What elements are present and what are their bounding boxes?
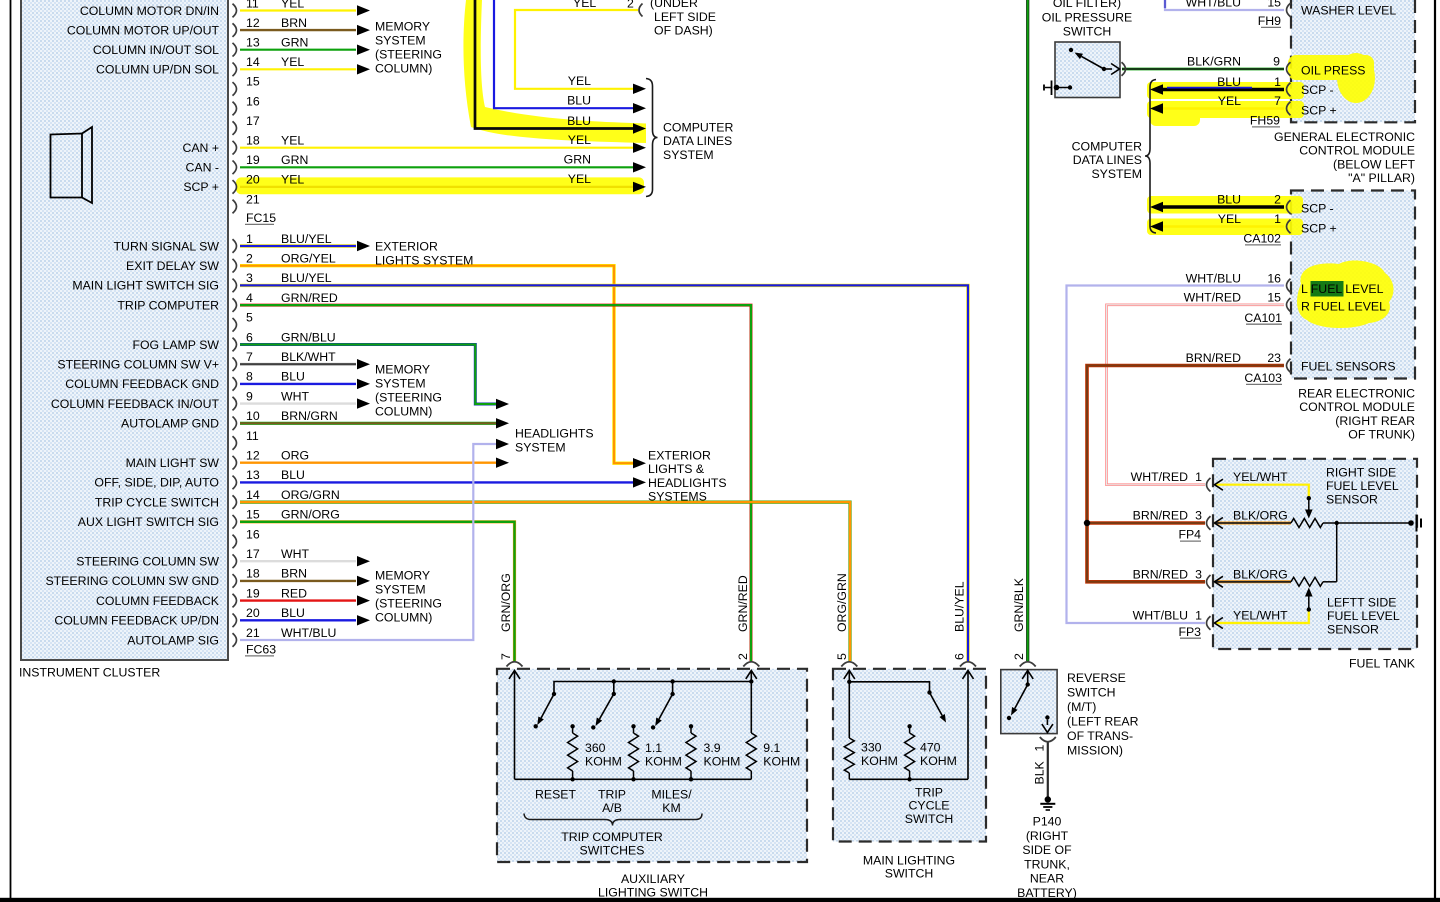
svg-text:1: 1 [1274,75,1281,89]
svg-text:SYSTEMS: SYSTEMS [648,490,707,504]
svg-text:COLUMN): COLUMN) [375,62,432,76]
svg-text:EXTERIOR: EXTERIOR [648,449,711,463]
auxiliary lighting switch box [497,669,807,862]
svg-text:3: 3 [1195,567,1202,581]
svg-text:ORG: ORG [281,449,309,463]
svg-text:COLUMN FEEDBACK GND: COLUMN FEEDBACK GND [65,377,219,391]
instrument cluster box [21,0,228,660]
svg-text:10: 10 [246,409,260,423]
right sensor wiper arrow [1308,500,1310,511]
brace computer data lines system (left) [646,79,658,197]
svg-text:17: 17 [246,114,260,128]
wire YEL pin 18 CAN+ [240,147,633,149]
svg-text:SENSOR: SENSOR [1327,623,1379,637]
svg-text:WHT: WHT [281,547,309,561]
svg-text:COMPUTER: COMPUTER [1072,140,1142,154]
svg-text:ORG/YEL: ORG/YEL [281,252,336,266]
svg-text:COLUMN): COLUMN) [375,611,432,625]
svg-text:13: 13 [246,36,260,50]
svg-text:YEL/WHT: YEL/WHT [1233,470,1288,484]
svg-text:3: 3 [1195,509,1202,523]
svg-text:FOG LAMP SW: FOG LAMP SW [132,338,219,352]
highlighter blob over L/R FUEL LEVEL [1297,261,1393,328]
wire WHT pin 9 [240,402,356,404]
svg-text:FH59: FH59 [1250,114,1280,128]
svg-text:HEADLIGHTS: HEADLIGHTS [648,476,727,490]
svg-text:COLUMN FEEDBACK UP/DN: COLUMN FEEDBACK UP/DN [54,614,219,628]
svg-text:FUEL TANK: FUEL TANK [1349,656,1416,670]
svg-text:SWITCH: SWITCH [1067,686,1116,700]
dark green highlight behind FUEL [1311,281,1344,297]
wire YEL pin 20 SCP+ [240,186,633,188]
svg-text:YEL: YEL [281,0,304,10]
svg-text:7: 7 [1274,94,1281,108]
GECM pin arcs [1287,3,1291,17]
arrows to memory system block 2 [357,359,370,369]
svg-text:FC15: FC15 [246,211,276,225]
svg-text:SYSTEM: SYSTEM [375,34,426,48]
svg-text:(BELOW LEFT: (BELOW LEFT [1333,157,1415,171]
junction dot BRN/RED branch [1084,520,1090,526]
reverse switch top connector arc pin 2 [1020,662,1036,667]
svg-text:15: 15 [246,508,260,522]
fuel tank box [1213,459,1417,649]
svg-text:11: 11 [246,429,259,443]
right sensor wiper dot [1307,496,1311,500]
wire BRN/RED pin 23 fuel sensors [1087,366,1284,582]
svg-text:(STEERING: (STEERING [375,391,442,405]
svg-text:ORG/GRN: ORG/GRN [281,488,340,502]
svg-text:GRN/BLU: GRN/BLU [281,330,336,344]
main switch top bus [847,680,851,684]
svg-text:BLK/ORG: BLK/ORG [1233,509,1288,523]
oil pressure switch diaphragm symbol [1043,85,1045,91]
instrument cluster FC63 pin arcs 1-21 [233,239,237,253]
svg-text:15: 15 [1267,291,1281,305]
svg-text:AUTOLAMP SIG: AUTOLAMP SIG [127,633,219,647]
brace computer data lines system (right) [1145,80,1156,234]
svg-text:470: 470 [920,740,941,754]
svg-text:1: 1 [1195,470,1202,484]
junction dot right sensor [1335,521,1339,525]
reverse switch box [1001,670,1057,734]
svg-text:SCP +: SCP + [1301,103,1337,117]
svg-text:6: 6 [246,330,253,344]
svg-text:(RIGHT: (RIGHT [1026,829,1069,843]
left sensor wiper dot [1307,607,1311,611]
wire YEL pin 11 [240,9,356,11]
main lighting switch box [833,669,986,842]
svg-text:2: 2 [627,0,634,11]
svg-text:A/B: A/B [602,801,622,815]
svg-text:BATTERY): BATTERY) [1017,886,1077,900]
wire WHT/RED pin 15 R fuel level [1107,305,1285,485]
wire WHT/BLU pin 15 washer level [1165,0,1284,10]
page bottom bar [0,898,1440,902]
svg-text:FUEL SENSORS: FUEL SENSORS [1301,359,1396,373]
svg-text:BLU: BLU [1217,193,1241,207]
svg-text:SWITCH: SWITCH [905,812,954,826]
svg-text:TRIP: TRIP [915,785,943,799]
resistor 360 KOHM [570,724,574,728]
svg-text:GRN/BLK: GRN/BLK [1012,577,1026,632]
svg-text:TRUNK,: TRUNK, [1024,857,1070,871]
wire BLU/YEL pin 3 main light switch sig [240,285,968,661]
svg-text:RED: RED [281,586,307,600]
svg-text:13: 13 [246,468,260,482]
svg-text:BLU/YEL: BLU/YEL [953,581,967,632]
svg-text:360: 360 [585,741,606,755]
svg-text:MEMORY: MEMORY [375,569,430,583]
svg-text:AUX LIGHT SWITCH SIG: AUX LIGHT SWITCH SIG [78,515,219,529]
wire BLU vertical to computer data lines [494,0,633,108]
wire BLU pin 13 off side dip auto [240,481,633,483]
svg-text:CONTROL MODULE: CONTROL MODULE [1299,400,1415,414]
left sensor wiper arrow [1308,596,1310,608]
arrows to memory system block 1 [357,5,370,15]
svg-text:COLUMN MOTOR UP/OUT: COLUMN MOTOR UP/OUT [67,23,220,37]
wire ORG/YEL pin 2 exit delay [240,266,633,464]
oil pressure switch box [1055,42,1120,98]
svg-text:FC63: FC63 [246,643,276,657]
general electronic control module connector FH9/FH59 box [1291,0,1415,122]
svg-text:19: 19 [246,586,260,600]
svg-text:L FUEL LEVEL: L FUEL LEVEL [1301,282,1384,296]
svg-text:8: 8 [246,370,253,384]
svg-text:SCP -: SCP - [1301,83,1334,97]
svg-text:OIL PRESS: OIL PRESS [1301,64,1365,78]
wire BRN pin 18 [240,580,356,582]
wire junction to fuel tank ground [1337,522,1409,524]
svg-text:YEL: YEL [568,133,591,147]
svg-text:WHT/BLU: WHT/BLU [281,626,336,640]
wire BRN/GRN pin 10 autolamp gnd [240,422,496,425]
svg-text:LEFT SIDE: LEFT SIDE [654,10,716,24]
oil pressure switch male pin arrow [1104,68,1112,70]
svg-text:16: 16 [246,527,260,541]
svg-text:1.1: 1.1 [645,741,662,755]
svg-text:WHT/BLU: WHT/BLU [1186,271,1241,285]
male pin arrows inside fuel tank [1215,479,1223,490]
svg-text:21: 21 [246,626,260,640]
page border left [10,0,12,902]
svg-text:YEL/WHT: YEL/WHT [1233,609,1288,623]
resistor right side fuel level sensor [1291,519,1323,528]
svg-text:6: 6 [953,653,967,660]
svg-text:LIGHTING SWITCH: LIGHTING SWITCH [598,885,708,899]
svg-text:3: 3 [246,271,253,285]
svg-text:SYSTEM: SYSTEM [1091,167,1142,181]
svg-text:BLU: BLU [281,606,305,620]
highlighter mark over computer data line wire (top center) [463,0,646,143]
svg-text:YEL: YEL [568,172,591,186]
svg-text:STEERING COLUMN SW: STEERING COLUMN SW [76,555,219,569]
svg-text:19: 19 [246,153,260,167]
svg-text:KOHM: KOHM [704,754,741,768]
svg-text:LIGHTS &: LIGHTS & [648,462,705,476]
trip cycle switch arm [930,693,943,716]
svg-text:YEL: YEL [573,0,596,10]
wire WHT/BLU pin 16 L fuel level [1067,286,1285,624]
svg-text:OF DASH): OF DASH) [654,24,713,38]
resistor 330 KOHM [848,682,850,738]
wire BLK/ORG left sensor [1215,580,1292,583]
svg-text:15: 15 [246,75,260,89]
resistor 1.1 KOHM [631,724,635,728]
svg-text:MILES/: MILES/ [651,787,692,801]
trip a/b switch [612,692,616,696]
svg-text:BLU: BLU [281,468,305,482]
svg-text:FP4: FP4 [1178,528,1201,542]
svg-text:MAIN LIGHT SW: MAIN LIGHT SW [126,456,220,470]
svg-text:5: 5 [835,653,849,660]
wire GRN/ORG pin 15 aux light switch sig [240,522,515,661]
svg-text:OF TRANS-: OF TRANS- [1067,729,1133,743]
oil pressure switch output arc [1122,62,1126,76]
svg-text:4: 4 [246,291,253,305]
svg-text:YEL: YEL [281,173,304,187]
wire BRN/RED branch to FP4 [1087,521,1205,525]
svg-text:BRN/GRN: BRN/GRN [281,409,338,423]
svg-text:MAIN LIGHT SWITCH SIG: MAIN LIGHT SWITCH SIG [72,279,219,293]
svg-text:DATA LINES: DATA LINES [663,134,732,148]
svg-text:7: 7 [246,350,253,364]
svg-text:INSTRUMENT CLUSTER: INSTRUMENT CLUSTER [19,666,160,680]
aux bus junction dots [612,679,616,683]
svg-text:STEERING COLUMN SW GND: STEERING COLUMN SW GND [45,574,219,588]
svg-text:SCP -: SCP - [1301,201,1334,215]
svg-text:CAN -: CAN - [186,161,219,175]
wire BLU (drawn black, highlighted) to computer data lines [475,0,633,129]
wire GRN/BLK to reverse switch [1026,0,1029,661]
svg-text:GRN/ORG: GRN/ORG [281,508,340,522]
oil pressure switch contacts [1069,48,1073,52]
svg-text:TURN SIGNAL SW: TURN SIGNAL SW [114,239,220,253]
svg-text:"A" PILLAR): "A" PILLAR) [1348,171,1415,185]
svg-text:(UNDER: (UNDER [650,0,698,10]
svg-text:SWITCHES: SWITCHES [580,844,645,858]
svg-text:18: 18 [246,134,260,148]
svg-text:2: 2 [736,653,750,660]
svg-text:COLUMN MOTOR DN/IN: COLUMN MOTOR DN/IN [80,4,219,18]
svg-text:16: 16 [246,94,260,108]
wire BLU/YEL pin 1 turn signal [240,244,356,247]
male pin arrows into main switch [848,671,850,683]
wire RED pin 19 [240,599,356,601]
svg-text:14: 14 [246,55,260,69]
svg-text:ORG/GRN: ORG/GRN [835,573,849,632]
svg-text:SWITCH: SWITCH [885,866,934,880]
svg-text:BLU/YEL: BLU/YEL [281,232,332,246]
svg-text:YEL: YEL [281,134,304,148]
arrows to computer data lines system [633,84,646,94]
resistor 3.9 KOHM [689,724,693,728]
svg-text:BLU: BLU [567,114,591,128]
svg-text:FH9: FH9 [1258,14,1281,28]
svg-text:KOHM: KOHM [763,754,800,768]
svg-text:FUEL LEVEL: FUEL LEVEL [1327,609,1400,623]
svg-text:9: 9 [246,389,253,403]
svg-text:LEFTT SIDE: LEFTT SIDE [1327,595,1396,609]
svg-text:HEADLIGHTS: HEADLIGHTS [515,427,594,441]
svg-text:23: 23 [1267,351,1281,365]
aux switch top connector arcs pins 7,2 [507,662,523,667]
svg-text:2: 2 [1274,193,1281,207]
svg-text:2: 2 [246,252,253,266]
svg-text:AUXILIARY: AUXILIARY [621,872,685,886]
svg-text:9: 9 [1273,55,1280,69]
wire YEL/WHT right sensor [1215,485,1309,496]
svg-text:GRN: GRN [281,153,308,167]
oil pressure switch arm [1081,56,1104,69]
svg-text:YEL: YEL [568,74,591,88]
svg-text:OIL FILTER): OIL FILTER) [1053,0,1121,10]
svg-text:1: 1 [246,232,253,246]
svg-text:BRN/RED: BRN/RED [1186,351,1241,365]
highlighter mark over SCP+ wire pin 20 [236,177,644,194]
svg-text:COLUMN FEEDBACK: COLUMN FEEDBACK [96,594,220,608]
wire BLU pin 2 SCP- CA102 (marked black) [1163,205,1284,209]
svg-text:KM: KM [662,801,680,815]
svg-text:2: 2 [1012,653,1026,660]
svg-text:SIDE OF: SIDE OF [1022,843,1072,857]
svg-text:WASHER LEVEL: WASHER LEVEL [1301,4,1396,18]
wire BLK/GRN pin 9 oil press [1122,68,1284,71]
svg-text:BLK/ORG: BLK/ORG [1233,567,1288,581]
svg-text:9.1: 9.1 [763,741,780,755]
instrument cluster FC15 pin arcs 11-21 [233,4,237,18]
brace trip computer switches [524,814,702,826]
svg-text:BLU: BLU [567,94,591,108]
svg-text:SENSOR: SENSOR [1326,493,1378,507]
aux switch top bus [554,682,751,695]
svg-text:SYSTEM: SYSTEM [375,377,426,391]
svg-text:TRIP COMPUTER: TRIP COMPUTER [117,298,219,312]
svg-text:SYSTEM: SYSTEM [515,441,566,455]
wire GRN/RED pin 4 trip computer [240,305,751,661]
svg-text:CA101: CA101 [1244,311,1282,325]
svg-text:16: 16 [1267,271,1281,285]
wire resistor to junction [1323,522,1337,524]
svg-text:REVERSE: REVERSE [1067,671,1126,685]
svg-text:COLUMN): COLUMN) [375,405,432,419]
svg-text:(LEFT REAR: (LEFT REAR [1067,715,1139,729]
male pin arrows into aux switch [514,671,516,780]
svg-text:SCP +: SCP + [1301,222,1337,236]
highlighter mark over FH59 BLU/YEL wires and OIL PRESS [1147,53,1375,126]
svg-text:17: 17 [246,547,260,561]
svg-text:CYCLE: CYCLE [908,798,949,812]
wire WHT pin 17 [240,560,356,562]
highlighter mark over CA102 BLU/YEL wires [1147,196,1303,235]
dash connector arc (UNDER LEFT SIDE OF DASH) [639,4,643,17]
mirror symbol inside instrument cluster [51,134,83,198]
svg-text:WHT/RED: WHT/RED [1131,470,1188,484]
svg-text:TRIP COMPUTER: TRIP COMPUTER [561,830,663,844]
wire YEL/WHT left sensor [1215,611,1309,623]
svg-text:CAN +: CAN + [182,141,219,155]
wire GRN pin 19 CAN- [240,166,633,168]
svg-text:15: 15 [1267,0,1281,10]
wire YEL pin 14 [240,68,356,70]
wire YEL pin 7 SCP+ FH59 [1163,107,1284,109]
svg-text:CA102: CA102 [1243,232,1281,246]
svg-text:BRN/RED: BRN/RED [1133,509,1188,523]
svg-text:LIGHTS SYSTEM: LIGHTS SYSTEM [375,254,473,268]
svg-text:FUEL LEVEL: FUEL LEVEL [1326,479,1399,493]
svg-text:WHT/BLU: WHT/BLU [1186,0,1241,10]
svg-text:BRN/RED: BRN/RED [1133,567,1188,581]
arrows to exterior lights and headlights systems [633,458,646,468]
svg-text:OIL PRESSURE: OIL PRESSURE [1042,11,1132,25]
svg-text:MISSION): MISSION) [1067,744,1123,758]
svg-text:REAR ELECTRONIC: REAR ELECTRONIC [1298,387,1415,401]
svg-text:18: 18 [246,567,260,581]
svg-text:KOHM: KOHM [861,754,898,768]
svg-text:BLK/WHT: BLK/WHT [281,350,336,364]
svg-text:(STEERING: (STEERING [375,597,442,611]
fuel tank FP pin arcs [1207,478,1211,492]
wire ORG pin 12 main light sw [240,462,496,464]
link wire between sensors [1336,523,1338,582]
svg-text:21: 21 [246,192,260,206]
svg-text:BRN: BRN [281,567,307,581]
svg-text:RESET: RESET [535,787,576,801]
svg-text:YEL: YEL [281,55,304,69]
fuel tank ground [1408,520,1414,526]
aux switch stubs [613,682,615,694]
svg-text:SYSTEM: SYSTEM [375,583,426,597]
wire WHT/BLU pin 21 autolamp sig [240,444,496,640]
svg-text:TRIP CYCLE SWITCH: TRIP CYCLE SWITCH [95,495,219,509]
svg-text:BLU/YEL: BLU/YEL [281,271,332,285]
svg-text:STEERING COLUMN SW V+: STEERING COLUMN SW V+ [57,358,219,372]
svg-text:11: 11 [246,0,259,10]
aux switch bottom bus [515,778,752,780]
svg-text:GRN/RED: GRN/RED [281,291,338,305]
svg-text:12: 12 [246,449,260,463]
svg-text:1: 1 [1195,609,1202,623]
main switch bottom bus [849,778,968,780]
svg-text:GRN: GRN [281,36,308,50]
svg-text:(M/T): (M/T) [1067,700,1096,714]
resistor 470 KOHM [907,724,911,728]
svg-text:MEMORY: MEMORY [375,20,430,34]
svg-text:BLU: BLU [281,370,305,384]
svg-text:3.9: 3.9 [704,741,721,755]
arrows to memory system block 3 [357,556,370,566]
svg-text:5: 5 [246,311,253,325]
wire ORG/GRN pin 14 trip cycle switch [240,502,850,661]
svg-text:(STEERING: (STEERING [375,48,442,62]
svg-text:WHT/BLU: WHT/BLU [1133,609,1188,623]
svg-text:OFF, SIDE, DIP, AUTO: OFF, SIDE, DIP, AUTO [94,476,219,490]
svg-text:MEMORY: MEMORY [375,363,430,377]
wire BLK/ORG right sensor [1215,522,1292,525]
svg-text:EXIT DELAY SW: EXIT DELAY SW [126,259,219,273]
reset switch [552,692,556,696]
svg-text:R FUEL LEVEL: R FUEL LEVEL [1301,300,1386,314]
svg-text:COMPUTER: COMPUTER [663,121,733,135]
svg-text:14: 14 [246,488,260,502]
wire GRN pin 13 [240,49,356,51]
svg-text:WHT/RED: WHT/RED [1184,291,1241,305]
svg-text:YEL: YEL [1218,212,1241,226]
svg-text:GRN/ORG: GRN/ORG [499,573,513,632]
svg-text:1: 1 [1033,745,1047,752]
wire GRN/BLU pin 6 fog lamp [240,345,496,405]
svg-text:RIGHT SIDE: RIGHT SIDE [1326,465,1396,479]
